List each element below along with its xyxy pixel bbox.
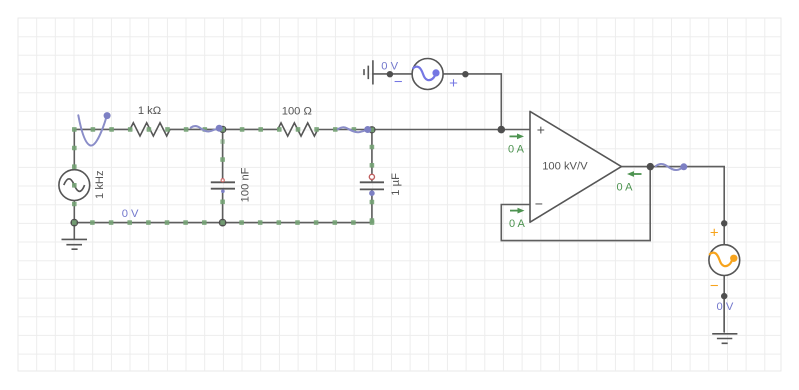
svg-text:100 nF: 100 nF — [240, 167, 252, 202]
svg-text:−: − — [710, 277, 719, 294]
svg-text:1 µF: 1 µF — [390, 173, 402, 196]
svg-text:+: + — [537, 122, 545, 138]
svg-text:+: + — [710, 224, 719, 241]
svg-text:0 V: 0 V — [717, 301, 734, 313]
svg-text:100 kV/V: 100 kV/V — [542, 161, 588, 173]
svg-text:+: + — [449, 75, 458, 92]
svg-text:0 V: 0 V — [122, 208, 139, 220]
svg-text:0 A: 0 A — [508, 144, 525, 156]
svg-text:0 V: 0 V — [381, 61, 398, 73]
svg-text:0 A: 0 A — [617, 181, 634, 193]
svg-text:−: − — [535, 196, 543, 212]
svg-text:−: − — [394, 74, 403, 91]
svg-text:0 A: 0 A — [509, 218, 526, 230]
svg-text:100 Ω: 100 Ω — [282, 106, 312, 118]
svg-text:1 kΩ: 1 kΩ — [138, 105, 161, 117]
svg-text:1 kHz: 1 kHz — [94, 170, 106, 199]
